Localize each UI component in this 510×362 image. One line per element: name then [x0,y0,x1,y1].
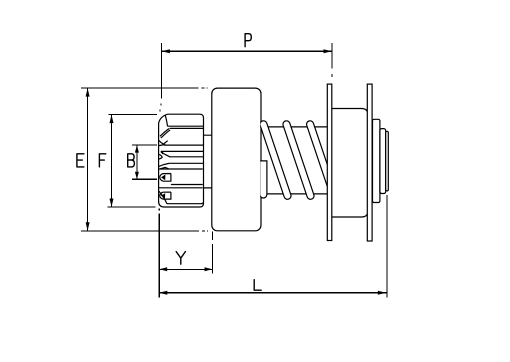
clutch body cylinder [212,88,261,231]
gear tooth T1 (top) [159,115,171,145]
shaft stubs between gear and clutch body [204,135,212,188]
centerline left (gear face) [159,43,161,298]
dim F line [111,115,113,207]
gear tooth lines [159,126,204,204]
dim P line [161,50,332,52]
hub between washers [331,109,368,218]
label Y [176,252,185,265]
label L [254,280,261,291]
gear tooth T4 [160,192,171,199]
arrow Y left [159,267,167,271]
arrow B up [135,145,139,153]
dim E extension lines [81,88,208,231]
spring coil 1 [259,120,292,200]
dim F extension lines [108,115,157,207]
arrow E down [86,222,90,231]
dim L extension line right [386,195,388,298]
gear mid tooth apex [159,153,170,159]
dim B line [136,145,138,179]
label F [99,154,105,167]
gear tooth T5 (bottom) [159,191,167,204]
centerline right (washer face) [331,43,333,77]
arrow L right [378,291,387,295]
spring barrel lines [261,127,328,194]
dim Y line [159,268,212,270]
pinion gear body [159,114,204,207]
label P [245,34,251,47]
arrow L left [159,291,168,295]
dim B extension lines [132,145,157,179]
arrow Y right [205,267,213,271]
arrow F up [110,115,114,124]
shaft nose C [386,131,389,191]
arrow P right [324,49,333,53]
dim L line [159,292,386,294]
arrow F down [110,199,114,208]
arrow E up [86,88,90,97]
label B [128,154,135,167]
gear tooth gap wedge 2 [159,141,168,146]
gear wedge to A6 [159,163,169,169]
washer plate 2 [367,84,372,241]
spring coil 2 [282,120,315,200]
dim Y extension line right [212,232,214,274]
washer plate 1 [327,84,332,240]
shaft step B [380,129,386,194]
arrow P left [161,49,170,53]
shaft step A [373,119,380,202]
spring coil 3 [306,120,339,200]
label E [77,154,84,167]
spring left collar [260,161,267,198]
arrow B down [135,172,139,180]
gear tooth T3 [160,174,171,182]
dim E line [87,88,89,231]
